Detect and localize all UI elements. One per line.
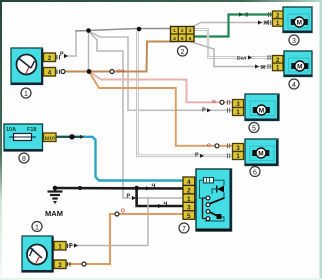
arrow and label Zh (motor3 lower wire) — [258, 20, 269, 26]
svg-text:1: 1 — [35, 225, 39, 232]
svg-text:M: M — [259, 108, 264, 115]
relay pin 1 — [183, 194, 195, 203]
designator circle 1 — [21, 88, 31, 98]
wire brown from connector X2 pin to junction J2 — [63, 42, 174, 72]
svg-text:Р: Р — [69, 243, 73, 249]
connector ticks at motor pins — [228, 13, 271, 158]
wire gray from washer pump pin 1 to relay pin 1 — [67, 198, 149, 246]
wire cyan from fuse corner to relay pin 4 — [84, 137, 184, 181]
label P arrow (pump pin1 wire) — [69, 243, 78, 249]
svg-text:1: 1 — [173, 28, 176, 34]
label P arrow (relay pin1 wire) — [127, 194, 137, 201]
pin 2 of pump — [54, 260, 70, 269]
svg-text:Ч: Ч — [164, 201, 168, 207]
pins of motor M6 — [233, 144, 244, 161]
wire white to motor4 top pin (Bel) — [194, 30, 272, 58]
svg-text:Ж: Ж — [263, 21, 269, 27]
svg-text:10A: 10A — [6, 127, 16, 133]
red tick near motor5 top wire — [212, 99, 216, 105]
svg-text:1: 1 — [24, 91, 28, 98]
connector X2 (6-pin yellow block) — [171, 27, 195, 43]
label P arrow (motor6 bottom wire) — [195, 153, 204, 159]
svg-text:О: О — [207, 143, 211, 149]
svg-text:Ш10: Ш10 — [45, 136, 55, 142]
arrow and label Z (green wire) — [239, 12, 249, 18]
label P on top bus — [0, 0, 1, 1]
border frame bottom — [0, 278, 322, 280]
svg-text:О: О — [121, 209, 125, 215]
junction dot on fuse wire — [69, 134, 74, 139]
svg-text:6: 6 — [189, 36, 192, 42]
wire dark teal from fuse to corner — [56, 136, 84, 138]
svg-text:5: 5 — [187, 213, 191, 220]
svg-text:5: 5 — [252, 126, 256, 133]
arrow on fuse wire — [80, 135, 84, 139]
wire pink from J2 to motor5 top pin — [89, 72, 233, 103]
svg-text:Р: Р — [127, 194, 131, 200]
svg-text:8: 8 — [22, 156, 26, 163]
wire gray fan branch B: J1 to relay pin 1 — [89, 31, 184, 198]
motor M6 (lower right) — [245, 139, 278, 166]
label Bel and arrow (motor4 top wire) — [237, 55, 252, 61]
svg-text:ОЧ: ОЧ — [117, 69, 125, 75]
connector circle on pump wire — [82, 262, 86, 266]
wire black ground bus to relay pin 2 — [55, 187, 184, 190]
designator circle 5 — [249, 123, 259, 133]
relay 7 body — [196, 169, 232, 231]
svg-text:2: 2 — [181, 28, 184, 34]
svg-text:3: 3 — [292, 38, 296, 45]
border frame left — [0, 0, 2, 280]
washer pump 1 (bottom left) body — [22, 236, 54, 272]
pin 1 of pump — [54, 242, 70, 251]
junction J1 — [86, 28, 91, 33]
relay contact set — [203, 196, 225, 220]
wire top bus white/gray from corner to connector X2 — [76, 29, 171, 32]
arrow and label Zh (motor4 bottom wire) — [255, 64, 266, 71]
ground symbol — [48, 188, 63, 204]
red label on orange wire near relay pin5 — [121, 209, 125, 215]
svg-text:4: 4 — [173, 36, 176, 42]
svg-text:5: 5 — [181, 36, 184, 42]
svg-text:2: 2 — [181, 49, 185, 56]
junction dot ground mid — [78, 186, 82, 190]
fuse output pin — [44, 133, 57, 142]
svg-text:7: 7 — [182, 226, 186, 233]
relay internal diode — [217, 186, 224, 193]
designator circle 7 — [179, 223, 189, 233]
fuse box 8 — [4, 124, 43, 151]
red label on brown wire — [117, 69, 125, 75]
wire green from connector X2 to motor3 pin 2 — [194, 15, 273, 37]
svg-text:F18: F18 — [27, 127, 36, 133]
svg-text:Р: Р — [60, 52, 64, 58]
border frame top — [0, 0, 322, 2]
label P arrow (motor5 bottom wire) — [202, 107, 211, 113]
svg-text:Ч: Ч — [152, 183, 156, 189]
pin 2 of component 1 — [44, 53, 60, 62]
wire gray to motor4 bottom pin — [190, 42, 272, 67]
svg-text:M: M — [297, 20, 302, 27]
designator circle 6 — [250, 167, 260, 177]
designator circle 8 — [19, 153, 29, 163]
wire orange from washer pump pin 2 to relay pin 5 — [67, 214, 184, 264]
border frame right — [320, 0, 322, 280]
pins of motor M5 — [233, 100, 244, 117]
relay pin 4 — [183, 177, 195, 186]
switch/sensor 1 (top-left) body — [11, 48, 43, 85]
ground label MAM — [45, 209, 63, 218]
pins of motor M3 — [273, 11, 284, 27]
svg-text:Бел: Бел — [237, 55, 246, 61]
svg-text:6: 6 — [253, 170, 257, 177]
wire gray from component 1 pin 2 up to junction J1 — [68, 31, 76, 56]
relay pin 5 — [183, 211, 195, 220]
connector circle on pink wire near motor5 — [220, 100, 224, 104]
relay internal resistor — [204, 178, 214, 184]
svg-text:3: 3 — [189, 28, 192, 34]
relay internal connection lines — [200, 180, 225, 221]
wire gray from connector X2 to motor3 pin 1 — [194, 23, 273, 27]
designator circle 4 — [289, 79, 299, 89]
designator circle 1 above pump — [32, 222, 42, 232]
junction J4 on ground bus — [134, 186, 139, 191]
arrow and label Ch on ground bus — [146, 183, 156, 190]
svg-text:З: З — [245, 13, 249, 19]
arrow and label P at component1 pin2 — [60, 52, 68, 59]
connector circle on orange wire near motor6 — [215, 144, 219, 148]
wire white from junction J3 down to motor6 bottom pin — [137, 29, 232, 156]
junction J3 — [137, 27, 142, 32]
connector circle on pin4 wire — [61, 70, 65, 74]
junction dot ground left — [53, 186, 58, 191]
svg-text:M: M — [258, 151, 263, 158]
relay pin 3 — [183, 202, 195, 211]
svg-text:Р: Р — [202, 107, 206, 113]
connector circle on orange wire near relay — [115, 212, 119, 216]
pin 4 of component 1 — [44, 68, 60, 77]
svg-text:МАМ: МАМ — [45, 209, 63, 218]
motor M3 (top right) — [283, 7, 312, 33]
svg-text:Ж: Ж — [260, 65, 266, 71]
arrow and label Ch on lower black wire — [158, 201, 168, 208]
motor M4 (right) — [284, 51, 312, 77]
svg-text:4: 4 — [292, 82, 296, 89]
designator circle 2 — [178, 46, 188, 56]
designator circle 3 — [289, 35, 299, 45]
junction J2 — [87, 69, 92, 74]
connector circle on brown wire — [110, 70, 114, 74]
wire gray vertical J1 to J2 — [88, 31, 90, 71]
relay pin 2 — [183, 185, 195, 194]
svg-text:О: О — [212, 99, 216, 105]
wire gray fan branch A: J1 to motor5 bottom pin — [89, 31, 233, 110]
wire orange from J2 to motor6 top pin — [89, 72, 233, 146]
svg-text:Р: Р — [195, 153, 199, 159]
motor M5 (middle right) — [245, 94, 279, 121]
red tick near motor6 top wire — [207, 143, 211, 149]
pins of motor M4 — [273, 56, 284, 72]
wire black branch to relay pin 3 — [137, 189, 184, 207]
svg-text:M: M — [297, 64, 302, 71]
